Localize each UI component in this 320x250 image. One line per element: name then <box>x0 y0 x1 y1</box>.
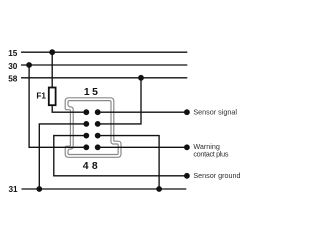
svg-text:30: 30 <box>8 62 18 71</box>
svg-text:58: 58 <box>8 75 18 84</box>
svg-text:Sensor signal: Sensor signal <box>193 108 237 117</box>
svg-text:15: 15 <box>8 49 18 58</box>
svg-text:4: 4 <box>83 161 89 172</box>
svg-text:contact plus: contact plus <box>193 150 228 159</box>
svg-text:8: 8 <box>92 161 98 172</box>
svg-text:1: 1 <box>84 87 90 98</box>
svg-text:Sensor ground: Sensor ground <box>193 171 240 180</box>
svg-text:F1: F1 <box>36 92 46 101</box>
svg-text:5: 5 <box>92 87 98 98</box>
svg-text:31: 31 <box>8 185 18 194</box>
